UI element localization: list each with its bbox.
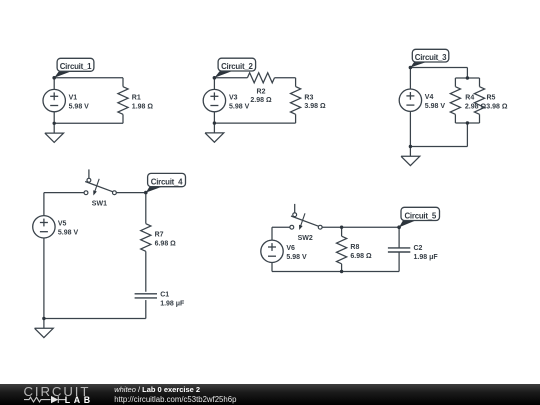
svg-text:V1: V1 xyxy=(69,95,78,102)
svg-text:V5: V5 xyxy=(58,221,67,228)
svg-text:5.98 V: 5.98 V xyxy=(286,254,307,261)
svg-text:3.98 Ω: 3.98 Ω xyxy=(304,103,326,110)
svg-text:R1: R1 xyxy=(132,95,141,102)
svg-text:Circuit_5: Circuit_5 xyxy=(404,211,436,220)
svg-text:R2: R2 xyxy=(257,89,266,96)
svg-text:Circuit_1: Circuit_1 xyxy=(60,62,92,71)
svg-text:Circuit_4: Circuit_4 xyxy=(151,178,183,187)
svg-text:6.98 Ω: 6.98 Ω xyxy=(155,240,177,247)
svg-text:R7: R7 xyxy=(155,231,164,238)
svg-text:SW1: SW1 xyxy=(92,201,107,208)
svg-text:1.98 Ω: 1.98 Ω xyxy=(132,103,154,110)
svg-text:C2: C2 xyxy=(414,245,423,252)
svg-text:V4: V4 xyxy=(425,94,434,101)
svg-text:R5: R5 xyxy=(487,94,496,101)
svg-text:SW2: SW2 xyxy=(298,235,313,242)
svg-text:R3: R3 xyxy=(304,94,313,101)
svg-text:5.98 V: 5.98 V xyxy=(425,103,446,110)
svg-text:Circuit_2: Circuit_2 xyxy=(221,62,253,71)
svg-text:5.98 V: 5.98 V xyxy=(229,103,250,110)
svg-text:1.98 μF: 1.98 μF xyxy=(160,300,185,307)
svg-text:V6: V6 xyxy=(286,245,295,252)
svg-text:3.98 Ω: 3.98 Ω xyxy=(486,103,508,110)
svg-text:Circuit_3: Circuit_3 xyxy=(415,53,447,62)
svg-text:5.98 V: 5.98 V xyxy=(58,230,79,237)
svg-text:2.98 Ω: 2.98 Ω xyxy=(465,103,487,110)
svg-text:V3: V3 xyxy=(229,95,238,102)
svg-text:5.98 V: 5.98 V xyxy=(69,103,90,110)
svg-text:2.98 Ω: 2.98 Ω xyxy=(250,97,272,104)
svg-text:6.98 Ω: 6.98 Ω xyxy=(350,253,372,260)
svg-text:C1: C1 xyxy=(160,291,169,298)
svg-text:1.98 μF: 1.98 μF xyxy=(414,254,439,261)
svg-text:R4: R4 xyxy=(465,94,474,101)
svg-text:R8: R8 xyxy=(350,244,359,251)
